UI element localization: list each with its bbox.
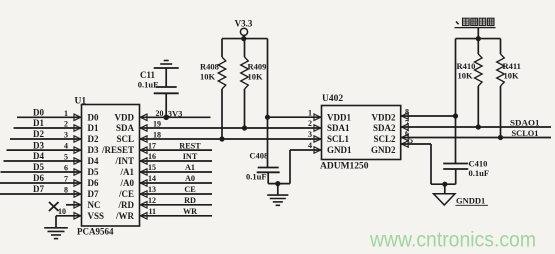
svg-text:C408: C408 — [249, 150, 268, 160]
pin 1 U402 — [308, 108, 321, 120]
svg-text:11: 11 — [148, 207, 156, 216]
svg-text:/RESET: /RESET — [101, 145, 134, 155]
svg-text:D7: D7 — [88, 189, 99, 199]
svg-text:/INT: /INT — [114, 156, 134, 166]
wire net WR stub pin 11 — [140, 207, 213, 219]
svg-text:D5: D5 — [88, 167, 99, 177]
svg-text:WR: WR — [183, 207, 197, 216]
wire SDA2 line to SDAO1 — [401, 118, 551, 128]
svg-text:ADUM1250: ADUM1250 — [320, 161, 369, 171]
pin 6 U402 — [402, 129, 410, 141]
wire SCL from U1 pin18 to U402 SCL1 — [140, 131, 322, 143]
node GND junction — [275, 181, 280, 186]
svg-text:SDA: SDA — [116, 123, 135, 133]
svg-text:D3: D3 — [33, 140, 44, 150]
node R409 to SDA — [242, 125, 247, 130]
node 3V3 junction to C11 — [163, 115, 169, 121]
ground (inverted) above C11 — [154, 61, 179, 69]
svg-text:D6: D6 — [33, 173, 44, 183]
svg-text:D7: D7 — [33, 184, 44, 194]
wire SDA from U1 pin19 to U402 SDA1 — [140, 120, 322, 132]
node R408 to SCL — [219, 136, 224, 141]
node VDD2 junction — [453, 113, 458, 118]
svg-text:SDA2: SDA2 — [373, 123, 396, 133]
svg-text:20: 20 — [156, 109, 164, 118]
svg-text:D0: D0 — [33, 108, 44, 118]
svg-text:D6: D6 — [88, 178, 99, 188]
wire D2 — [10, 138, 82, 140]
svg-text:V3.3: V3.3 — [235, 19, 253, 29]
wire D5 — [1, 171, 82, 173]
svg-text:16: 16 — [148, 152, 156, 161]
right isolated power port label (CJK-like glyphs drawn) — [455, 18, 496, 41]
wire VDD2 line8 — [401, 115, 456, 117]
svg-text:5: 5 — [64, 153, 68, 162]
pin 8 U402 — [402, 108, 410, 120]
wire V3.3 to VDD1 and C408 — [267, 39, 269, 168]
U1 chip body — [75, 97, 140, 237]
svg-text:INT: INT — [183, 152, 198, 161]
svg-text:A0: A0 — [185, 174, 195, 183]
wire net CE stub pin 13 — [140, 185, 213, 197]
svg-text:CE: CE — [184, 185, 196, 194]
node GND2 junction — [442, 182, 447, 187]
ground GNDD1 triangle — [434, 184, 489, 205]
svg-text:GNDD1: GNDD1 — [456, 195, 485, 205]
svg-text:D0: D0 — [88, 112, 99, 122]
svg-text:10K: 10K — [458, 71, 474, 81]
svg-text:D4: D4 — [33, 151, 44, 161]
svg-text:14: 14 — [148, 174, 156, 183]
svg-text:1: 1 — [308, 108, 312, 117]
svg-text:SCL: SCL — [116, 134, 134, 144]
svg-text:13: 13 — [148, 185, 156, 194]
svg-text:D1: D1 — [88, 123, 99, 133]
svg-text:U1: U1 — [75, 97, 87, 107]
svg-text:10K: 10K — [200, 72, 216, 82]
svg-text:D4: D4 — [88, 156, 99, 166]
VSS wire to ground — [56, 213, 82, 228]
svg-text:1: 1 — [64, 109, 68, 118]
svg-text:U402: U402 — [322, 94, 343, 104]
wire D7 — [0, 193, 82, 195]
node R411 to SCL2 — [498, 135, 503, 140]
svg-text:2: 2 — [64, 120, 68, 129]
svg-text:www.cntronics.com: www.cntronics.com — [369, 228, 536, 252]
resistor R408 10K — [200, 39, 226, 139]
svg-text:REST: REST — [179, 141, 201, 150]
data bus wires D0-D7 into U1 — [17, 108, 82, 121]
svg-text:/RD: /RD — [118, 200, 135, 210]
svg-text:GND2: GND2 — [371, 145, 396, 155]
svg-text:SCL1: SCL1 — [327, 134, 350, 144]
svg-text:SDAO1: SDAO1 — [510, 118, 540, 128]
wire D0 — [17, 116, 82, 118]
svg-text:3: 3 — [308, 130, 312, 139]
pin 10 NC no-connect X — [49, 202, 82, 216]
svg-text:0.1uF: 0.1uF — [138, 79, 159, 89]
svg-text:NC: NC — [88, 200, 101, 210]
svg-text:PCA9564: PCA9564 — [77, 227, 114, 237]
svg-text:D2: D2 — [33, 129, 44, 139]
op U402 chip body — [320, 94, 401, 171]
resistor R409 10K — [241, 39, 267, 128]
wire D3 — [7, 149, 82, 151]
pin 5 U402 — [402, 136, 414, 147]
svg-text:10: 10 — [58, 207, 66, 216]
svg-text:A1: A1 — [185, 163, 195, 172]
svg-text:6: 6 — [64, 164, 68, 173]
wire net A1 stub pin 15 — [140, 163, 213, 175]
capacitor C410 — [443, 159, 489, 185]
wire net RD stub pin 12 — [140, 196, 213, 208]
wire VDD1 line to U402 pin1 — [268, 116, 322, 118]
node VDD1 junction — [265, 115, 270, 120]
wire SCL2 line to SCLO1 — [401, 128, 551, 138]
ground symbol at U1 VSS — [44, 228, 68, 239]
wire isolated power rail — [456, 38, 501, 40]
wire GND2 net — [401, 144, 456, 184]
svg-text:8: 8 — [64, 186, 68, 195]
wire V3.3 rail — [222, 38, 268, 40]
pin 2 U402 — [308, 119, 321, 131]
svg-text:D5: D5 — [33, 162, 44, 172]
capacitor C11 — [138, 68, 179, 117]
pin 7 U402 — [402, 119, 410, 131]
resistor R410 10K — [457, 39, 483, 127]
svg-text:/A1: /A1 — [120, 167, 135, 177]
svg-text:3: 3 — [64, 131, 68, 140]
svg-text:R409: R409 — [248, 62, 267, 72]
wire GND1 net — [268, 150, 321, 184]
svg-text:18: 18 — [153, 131, 161, 140]
svg-text:D1: D1 — [33, 118, 44, 128]
wire D6 — [0, 182, 82, 184]
svg-text:19: 19 — [153, 120, 161, 129]
svg-text:/WR: /WR — [115, 211, 135, 221]
ground symbol below C408 — [267, 184, 288, 206]
svg-text:D2: D2 — [88, 134, 99, 144]
svg-text:RD: RD — [184, 196, 196, 205]
node R410 to SDA2 — [476, 124, 481, 129]
wire net A0 stub pin 14 — [140, 174, 213, 186]
svg-text:VSS: VSS — [88, 211, 105, 221]
svg-text:SDA1: SDA1 — [327, 123, 350, 133]
wire 3V3 net stub pin 20 — [140, 109, 211, 121]
svg-text:4: 4 — [64, 142, 68, 151]
svg-text:17: 17 — [148, 141, 156, 150]
pin 3 U402 — [308, 130, 321, 142]
svg-text:0.1uF: 0.1uF — [246, 172, 267, 182]
svg-text:4: 4 — [308, 141, 312, 150]
svg-text:R408: R408 — [200, 62, 219, 72]
pin 4 U402 — [308, 141, 321, 153]
resistor R411 10K — [497, 39, 521, 138]
svg-text:12: 12 — [148, 196, 156, 205]
svg-text:SCL2: SCL2 — [373, 134, 396, 144]
svg-text:/CE: /CE — [118, 189, 134, 199]
wire net REST stub pin 17 — [140, 141, 213, 153]
svg-text:3V3: 3V3 — [168, 109, 183, 119]
svg-text:2: 2 — [308, 119, 312, 128]
svg-text:GND1: GND1 — [327, 145, 352, 155]
svg-text:D3: D3 — [88, 145, 99, 155]
capacitor C408 — [246, 150, 280, 183]
svg-text:15: 15 — [148, 163, 156, 172]
power port V3.3 — [235, 19, 253, 42]
svg-text:0.1uF: 0.1uF — [469, 168, 490, 178]
wire VDD2 drop to line8 and C410 — [455, 39, 457, 164]
svg-text:10K: 10K — [248, 72, 264, 82]
svg-text:VDD: VDD — [115, 112, 135, 122]
svg-text:VDD2: VDD2 — [372, 112, 396, 122]
svg-text:SCLO1: SCLO1 — [512, 128, 539, 138]
svg-text:7: 7 — [64, 175, 68, 184]
svg-text:10K: 10K — [504, 71, 520, 81]
wire net INT stub pin 16 — [140, 152, 213, 164]
svg-text:VDD1: VDD1 — [327, 112, 351, 122]
wire D4 — [4, 160, 82, 162]
svg-text:/A0: /A0 — [120, 178, 135, 188]
wire D1 — [14, 127, 82, 129]
